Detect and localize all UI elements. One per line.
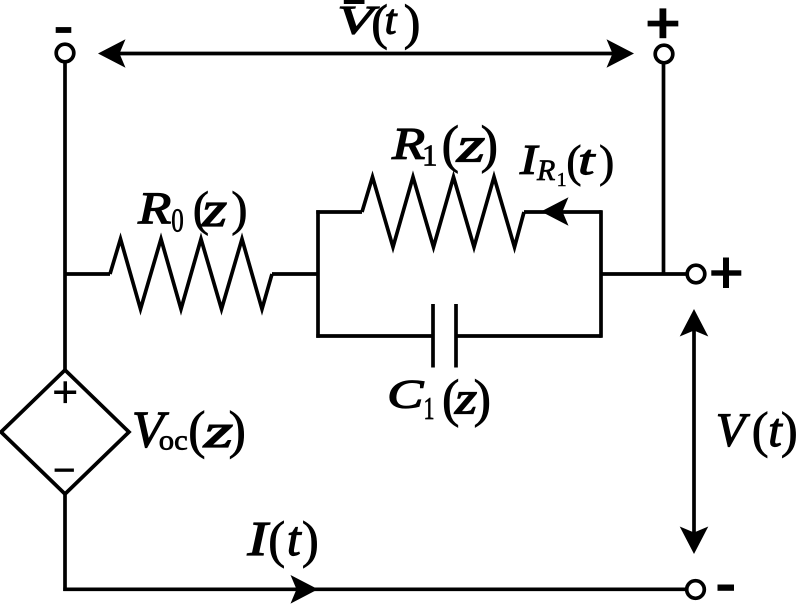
svg-text:(: (	[188, 402, 205, 460]
svg-text:z: z	[201, 181, 227, 237]
plus polarity label at T2	[648, 8, 679, 38]
wire box left vertical	[316, 210, 320, 337]
dependent voltage source Voc (diamond)	[1, 370, 129, 494]
label R0(z)	[137, 181, 247, 240]
wire box top-right segment	[524, 210, 602, 214]
current arrowhead I_R1 (pointing left into R1)	[541, 197, 569, 226]
plus polarity label at T3	[711, 258, 741, 289]
current arrowhead I(t) (pointing right on bottom rail)	[291, 575, 319, 604]
wire box to right terminal	[601, 272, 686, 276]
svg-text:): )	[781, 402, 797, 459]
label R1(z)	[391, 116, 498, 174]
terminal T3 (right, positive)	[687, 265, 705, 283]
svg-text:0: 0	[171, 203, 184, 240]
svg-text:): )	[474, 370, 492, 428]
svg-text:): )	[404, 0, 421, 50]
terminal T2 (top-right, positive)	[655, 45, 673, 63]
svg-text:1: 1	[422, 138, 438, 173]
label I(t)	[246, 511, 319, 569]
svg-text:1: 1	[557, 169, 567, 191]
label V(t)	[716, 402, 797, 459]
resistor R0	[110, 239, 272, 309]
terminal T4 (bottom-right, negative)	[687, 581, 705, 599]
wire box bottom-left segment	[316, 334, 433, 338]
svg-text:t: t	[385, 0, 398, 43]
bottom wire (rail)	[63, 587, 686, 591]
svg-text:oc: oc	[159, 426, 188, 457]
wire box right vertical	[599, 210, 603, 337]
wire main left (node A to R0)	[65, 272, 110, 276]
label Vbar(t)	[337, 0, 420, 50]
svg-text:): )	[229, 402, 246, 460]
label Voc(z)	[132, 402, 246, 460]
svg-text:C: C	[387, 372, 425, 417]
svg-text:R: R	[391, 119, 425, 169]
label C1(z)	[387, 370, 491, 428]
terminal T1 (top-left, negative)	[56, 44, 74, 62]
svg-text:): )	[481, 116, 499, 174]
wire source bottom to bottom rail	[63, 494, 67, 591]
svg-text:(: (	[268, 512, 285, 569]
wire left vertical (T1 to source top)	[63, 63, 67, 370]
minus sign inside source	[55, 469, 74, 472]
svg-text:(: (	[752, 402, 769, 459]
svg-text:): )	[599, 136, 614, 187]
wire top-right vertical (T2 down to node)	[662, 64, 666, 274]
plus sign inside source	[54, 381, 76, 403]
svg-text:R: R	[536, 154, 555, 187]
svg-text:1: 1	[424, 390, 435, 426]
svg-text:I: I	[246, 511, 270, 566]
capacitor C1	[433, 304, 456, 368]
svg-text:t: t	[578, 138, 596, 184]
wire box top-left segment	[316, 210, 362, 214]
measurement arrow V(t) (double-headed, right side)	[680, 309, 709, 554]
wire R0 to parallel box	[272, 272, 318, 276]
minus polarity label at T4	[718, 585, 735, 591]
minus polarity label at T1	[56, 27, 72, 33]
svg-text:V: V	[716, 404, 750, 457]
svg-text:): )	[231, 181, 247, 236]
label I_R1(t)	[519, 136, 615, 191]
svg-text:R: R	[137, 183, 171, 233]
svg-text:t: t	[287, 511, 302, 566]
resistor R1	[362, 177, 524, 247]
measurement arrow Vbar(t) (double-headed, top)	[98, 39, 634, 68]
svg-text:): )	[302, 512, 319, 569]
wire box bottom-right segment	[456, 334, 602, 338]
